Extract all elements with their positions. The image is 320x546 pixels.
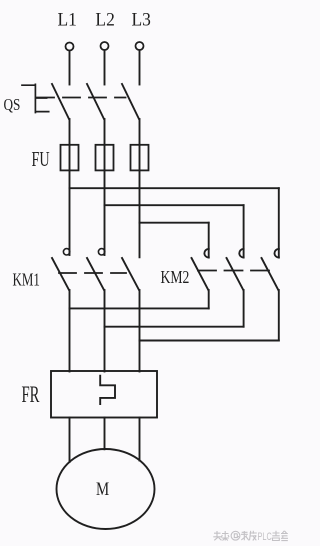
wire L2 terminal to QS xyxy=(104,50,106,84)
node junction L3 feeder to KM2 (horizontal) xyxy=(140,222,209,224)
wire FR to motor U xyxy=(69,418,71,463)
switch QS blade pole 1 xyxy=(52,84,69,119)
svg-text:L3: L3 xyxy=(132,9,151,30)
wire FU through to KM1 pole 2 fixed contact xyxy=(104,145,106,255)
svg-text:FU: FU xyxy=(32,147,50,171)
fuse FU pole 1 body xyxy=(61,145,79,171)
wire KM1 pole 3 output down to FR xyxy=(139,290,141,372)
wire KM1 pole 2 output down to FR xyxy=(104,290,106,372)
wire L3 terminal to QS xyxy=(139,50,141,84)
fuse FU pole 3 body xyxy=(131,145,149,171)
wire feeder down to KM2 pole 1 xyxy=(208,223,210,258)
node junction L1 feeder to KM2 (horizontal) xyxy=(70,187,279,189)
svg-text:M: M xyxy=(96,478,109,499)
wire KM2 pole 2 output drop xyxy=(243,290,245,327)
motor M body xyxy=(57,449,155,529)
svg-text:FR: FR xyxy=(22,383,40,408)
thermal relay FR heater element symbol xyxy=(100,376,115,404)
node junction L2 feeder to KM2 (horizontal) xyxy=(105,204,244,206)
contactor KM1 mechanical link (dashed) xyxy=(59,272,126,274)
terminal circle L1 xyxy=(66,43,74,51)
node merge U phase (horizontal) xyxy=(70,307,209,309)
wire QS to FU pole 1 xyxy=(69,119,71,145)
svg-text:L2: L2 xyxy=(95,9,114,30)
svg-text:QS: QS xyxy=(4,96,21,115)
contactor KM2 pole 1 fixed contact xyxy=(204,249,208,258)
wire FR to motor V xyxy=(104,418,106,450)
terminal circle L3 xyxy=(136,42,144,50)
svg-text:PLC: PLC xyxy=(258,531,273,543)
thermal relay FR body xyxy=(51,371,157,418)
contactor KM1 pole 2 blade xyxy=(87,258,104,290)
wire feeder down to KM2 pole 2 xyxy=(243,205,245,257)
switch QS mechanical link (dashed) xyxy=(37,97,126,99)
contactor KM1 pole 1 fixed contact xyxy=(63,249,69,255)
contactor KM2 pole 1 blade xyxy=(192,258,209,290)
contactor KM2 pole 3 fixed contact xyxy=(274,249,278,258)
wire QS to FU pole 3 xyxy=(139,119,141,145)
wire QS to FU pole 2 xyxy=(104,119,106,145)
contactor KM1 pole 1 blade xyxy=(52,258,69,290)
svg-text:KM2: KM2 xyxy=(161,268,190,287)
contactor KM2 mechanical link (dashed) xyxy=(198,270,271,272)
contactor KM1 pole 3 blade xyxy=(122,258,139,290)
terminal circle L2 xyxy=(101,42,109,50)
wire FU through to KM1 pole 1 fixed contact xyxy=(69,145,71,255)
node merge W phase (horizontal) xyxy=(140,340,279,342)
wire FR to motor W xyxy=(139,418,141,461)
svg-text:KM1: KM1 xyxy=(13,271,40,291)
wire KM1 pole 1 output down to FR xyxy=(69,290,71,372)
watermark 头条@技成PLC课堂 xyxy=(213,531,288,541)
contactor KM2 pole 2 blade xyxy=(227,258,244,290)
contactor KM1 pole 2 fixed contact xyxy=(98,249,104,255)
wire FU through to KM1 pole 3 fixed contact xyxy=(139,145,141,257)
svg-text:L1: L1 xyxy=(58,9,77,30)
switch QS operating handle bracket xyxy=(22,84,49,112)
contactor KM2 pole 2 fixed contact xyxy=(239,249,243,258)
switch QS blade pole 2 xyxy=(87,84,104,119)
switch QS blade pole 3 xyxy=(122,84,139,119)
wire L1 terminal to QS xyxy=(69,51,71,85)
contactor KM2 pole 3 blade xyxy=(262,258,279,290)
node merge V phase (horizontal) xyxy=(105,326,244,328)
wire feeder down to KM2 pole 3 xyxy=(278,188,280,257)
wire KM2 pole 1 output drop xyxy=(208,290,210,308)
fuse FU pole 2 body xyxy=(96,145,114,171)
wire KM2 pole 3 output drop xyxy=(278,290,280,341)
